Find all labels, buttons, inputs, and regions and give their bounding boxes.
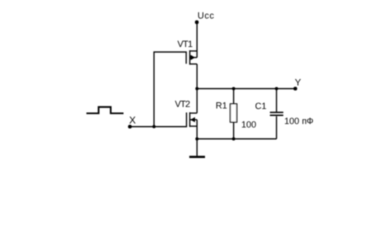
svg-text:100: 100 — [241, 120, 256, 130]
svg-text:Ucc: Ucc — [198, 10, 215, 20]
svg-text:100 пФ: 100 пФ — [284, 116, 313, 126]
svg-text:C1: C1 — [255, 101, 267, 111]
svg-text:Y: Y — [295, 78, 302, 89]
svg-text:X: X — [129, 115, 136, 126]
svg-text:VT1: VT1 — [177, 39, 192, 49]
svg-text:R1: R1 — [216, 101, 228, 111]
svg-text:VT2: VT2 — [175, 99, 190, 109]
